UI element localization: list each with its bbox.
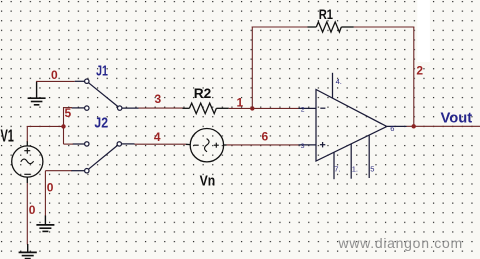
svg-text:V1: V1 [1, 125, 15, 145]
wire net 2: R1 right to output [354, 27, 415, 127]
wire net 1: R2 to op-amp inverting input [229, 107, 299, 109]
wire net 1: feedback riser [251, 27, 253, 109]
AC source V1 [12, 141, 43, 183]
svg-text:3: 3 [155, 92, 162, 106]
resistor R2 [183, 103, 229, 114]
svg-text:J2: J2 [94, 115, 108, 132]
switch J2 [71, 142, 135, 173]
wire net 4: J2 common to Vn [135, 143, 187, 145]
svg-text:0: 0 [47, 180, 54, 194]
ground (net 0, below V1) [19, 244, 37, 259]
junction net 5 [61, 124, 65, 128]
ground (net 0, top left) [28, 82, 46, 105]
AC source Vn [186, 129, 227, 162]
svg-text:1: 1 [237, 95, 244, 109]
wire net 2: op-amp output to Vout [407, 125, 480, 127]
svg-text:2: 2 [416, 64, 423, 78]
wire net 0: V1- to ground [26, 183, 28, 245]
svg-text:4: 4 [154, 130, 161, 144]
svg-text:7.: 7. [334, 165, 340, 174]
wire net 5: V1+ to J1/J2 throws [27, 107, 73, 144]
svg-text:3: 3 [301, 143, 305, 150]
svg-text:0: 0 [51, 68, 58, 82]
svg-text:6: 6 [262, 129, 269, 143]
junction net 2 [412, 124, 416, 128]
op-amp U1 [299, 73, 407, 179]
wire net 0: J2 bottom throw to ground [45, 171, 71, 216]
svg-text:5: 5 [370, 165, 374, 174]
wire net 1: to R1 left [252, 26, 308, 28]
svg-text:www.diangon.com: www.diangon.com [338, 235, 463, 251]
wire net 0: ground to J1 top throw [36, 80, 75, 82]
svg-text:R2: R2 [194, 85, 212, 101]
svg-text:2: 2 [301, 106, 305, 113]
wire net 6: Vn to op-amp non-inverting input [227, 144, 299, 146]
wire net 3: J1 common to R2 [139, 107, 184, 109]
resistor R1 [308, 22, 354, 32]
svg-text:Vout: Vout [441, 109, 473, 126]
svg-text:0: 0 [29, 203, 36, 217]
svg-text:Vn: Vn [200, 174, 216, 190]
junction net 1 [250, 106, 254, 110]
white strip artifact [417, 0, 430, 62]
svg-text:5: 5 [65, 106, 72, 120]
svg-text:4.: 4. [336, 77, 342, 86]
switch J1 [72, 79, 139, 110]
svg-text:6: 6 [390, 124, 394, 133]
svg-text:R1: R1 [319, 6, 334, 22]
svg-text:J1: J1 [96, 62, 108, 79]
ground (net 0, middle) [36, 216, 54, 232]
svg-text:1.: 1. [352, 165, 358, 174]
